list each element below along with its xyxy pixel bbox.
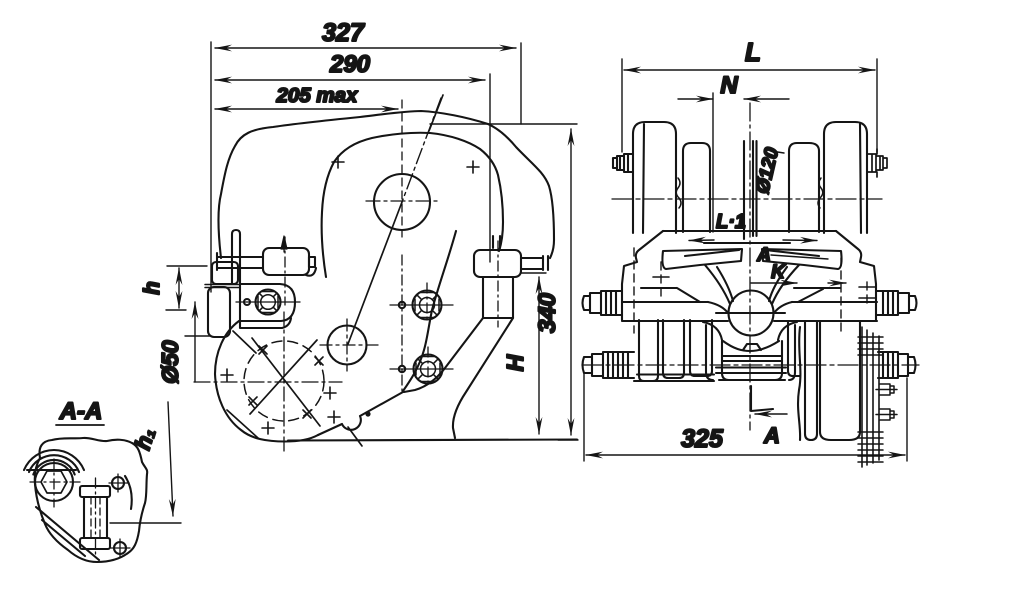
dim 325 line — [586, 454, 905, 456]
boss outer arc — [215, 321, 318, 442]
shelf-to-circle arc right — [774, 302, 792, 313]
325 ext left — [583, 374, 585, 461]
right jaw inner slant — [765, 250, 819, 256]
right post centerline — [497, 241, 499, 327]
left jaw inner slant — [685, 250, 739, 256]
base band line — [637, 373, 714, 375]
long tick lower-right — [348, 427, 362, 446]
long tick lower-left — [227, 410, 258, 438]
right bracket strip — [521, 256, 548, 270]
A bottom arrow — [755, 413, 787, 415]
left outer lobe — [633, 122, 676, 233]
small bolt lower — [876, 409, 897, 420]
big circle h-centerline — [366, 200, 438, 202]
center v-centerline x750 — [749, 103, 751, 430]
baseline — [288, 440, 577, 441]
gap squiggle left — [676, 178, 681, 208]
svg-text:h₁: h₁ — [130, 425, 160, 453]
small circle upper — [112, 477, 124, 489]
right column — [788, 321, 800, 376]
section bolt circle — [35, 463, 73, 501]
omega bump — [743, 344, 761, 350]
svg-text:L: L — [745, 37, 761, 67]
top bracket post — [232, 230, 240, 284]
slot top line — [704, 242, 790, 244]
bowl bottom line — [719, 379, 785, 381]
jaw-to-circle curve right — [772, 265, 799, 304]
left jaw — [662, 249, 742, 269]
svg-text:290: 290 — [329, 51, 371, 78]
long tick upper-left — [233, 331, 256, 353]
head right profile — [836, 231, 876, 320]
right shelf lines — [792, 288, 877, 302]
bowl stack lines — [716, 356, 786, 373]
extension line right x490 — [489, 74, 491, 262]
dashed hidden line right x841 — [840, 258, 842, 336]
inner wing curve right — [769, 267, 787, 301]
shoulder arc right — [778, 322, 797, 340]
dim 205max line — [215, 108, 398, 110]
svg-text:A-A: A-A — [59, 398, 103, 425]
dim h line — [178, 268, 180, 308]
extension line left x211 — [210, 42, 212, 292]
bolt v-centerlines — [427, 283, 428, 387]
left block B — [208, 287, 230, 337]
right bracket pad — [474, 250, 521, 277]
X cross line 2 — [250, 340, 317, 414]
boss flange bottom — [240, 318, 291, 328]
right bolt circle lower — [414, 355, 443, 384]
svg-text:N: N — [720, 72, 738, 99]
pin bottom cap — [80, 538, 110, 549]
dim h1 line — [168, 402, 173, 516]
flank wall left — [706, 325, 713, 380]
lower-right big bolt — [878, 352, 916, 378]
ribbed pack verticals — [862, 327, 879, 467]
central circle — [729, 291, 774, 336]
diagonal edge 2 — [404, 318, 483, 392]
dim L line — [624, 69, 875, 71]
dim N line — [678, 98, 713, 100]
right side bolt — [867, 149, 887, 177]
head left profile — [622, 231, 663, 320]
pin body — [84, 497, 107, 538]
svg-text:327: 327 — [322, 19, 365, 47]
svg-text:L·1: L·1 — [716, 211, 746, 233]
solid diagonal top segment — [429, 95, 443, 131]
small bolt upper — [876, 384, 897, 395]
dim 327 line — [215, 47, 516, 49]
middle circle — [328, 326, 367, 365]
dim 340 line — [570, 129, 572, 435]
jaw-to-circle curve left — [705, 265, 730, 304]
svg-text:Ø50: Ø50 — [157, 340, 183, 384]
concentric arcs — [24, 450, 84, 475]
inner pocket curve — [125, 476, 132, 509]
L extension lines — [621, 59, 623, 152]
small circle lower — [114, 542, 126, 554]
outer cover outline — [218, 111, 554, 258]
section blob outline — [35, 438, 147, 562]
hanging plate 1 — [805, 321, 817, 440]
upper-left big bolt — [583, 291, 623, 315]
pad v-centerline — [284, 237, 286, 305]
inner wing curve left — [717, 267, 733, 301]
right bolt circle upper — [413, 291, 442, 320]
lower h-centerline y365 — [582, 364, 919, 366]
vertical dashed line x402 — [401, 255, 403, 392]
dim L1 arrows — [689, 239, 714, 242]
pin top cap — [80, 486, 110, 497]
RIGHT VIEW — [584, 59, 907, 461]
right inner slab — [789, 143, 819, 232]
right jaw — [762, 249, 842, 269]
top bracket hook fillet — [306, 268, 316, 276]
left bolt inner pattern — [261, 295, 276, 310]
slant bottom line with bump — [318, 392, 403, 435]
head bottom edge — [622, 320, 877, 322]
bowl side walls — [722, 341, 782, 380]
325 ext right — [906, 378, 908, 461]
wavy edge line — [798, 327, 800, 440]
top bracket pad — [263, 248, 309, 275]
pin centerline — [95, 478, 97, 556]
wavy line under circle — [723, 341, 779, 351]
pipe lines — [744, 141, 757, 239]
svg-text:h: h — [139, 281, 164, 294]
boss flange — [240, 284, 295, 321]
inner cover outline — [322, 133, 503, 277]
bottom line — [634, 380, 714, 382]
A top leader — [771, 255, 828, 259]
lower-left big bolt — [583, 352, 635, 378]
right lobe inner line — [860, 124, 861, 233]
label A-A underline — [56, 424, 104, 426]
h1 reference line — [110, 522, 181, 524]
double lines under blocks — [205, 285, 240, 288]
shoulder arc left — [703, 322, 722, 340]
top bracket strap — [217, 253, 263, 270]
bolt h-centerlines — [390, 305, 453, 369]
gap squiggle right — [818, 178, 823, 208]
central circle h-line — [716, 312, 785, 314]
left bolt circle — [256, 290, 281, 315]
left side bolt — [613, 154, 633, 172]
section bolt hexagon — [41, 471, 67, 493]
DIMENSIONS-LEFT-VIEW — [166, 42, 578, 440]
head top edge — [663, 230, 836, 232]
dashed bolt circle — [244, 341, 324, 421]
small up arrow at pad centerline — [281, 236, 287, 252]
flank wall right — [789, 325, 795, 380]
svg-text:H: H — [502, 354, 528, 371]
dashed hidden line x661 with crosses — [660, 262, 662, 300]
K arrows — [751, 282, 797, 284]
svg-text:325: 325 — [681, 425, 724, 453]
boss v-centerline — [283, 312, 285, 452]
bottom-left diagonal — [36, 507, 99, 560]
x marks on dashed circle — [249, 346, 323, 418]
left block A — [212, 262, 238, 284]
boss h-centerline — [194, 381, 342, 383]
S-curve right of bolts — [403, 231, 456, 391]
axis diagonal dash-dot — [402, 98, 441, 202]
plus marks around boss — [221, 369, 340, 434]
right bracket post — [483, 277, 513, 318]
right bracket upper lines — [493, 236, 500, 248]
dim 290 line — [215, 79, 485, 81]
pin hidden lines — [91, 497, 100, 538]
shelf-to-circle arc left — [708, 302, 728, 313]
dashed hidden line left x631 — [633, 248, 635, 333]
right outer lobe — [824, 122, 867, 233]
left inner slab — [683, 143, 710, 232]
small circles left of bolts — [399, 302, 405, 308]
ribbed pack ticks — [858, 337, 883, 462]
svg-text:205 max: 205 max — [276, 84, 360, 107]
big circle — [374, 174, 430, 230]
left shelf lines — [622, 288, 708, 302]
chord line — [27, 469, 76, 471]
middle circle centerlines — [320, 319, 378, 371]
phi120 tick — [771, 151, 784, 153]
solid diagonal segment — [348, 202, 402, 344]
section line jog — [751, 386, 773, 411]
plus mark left — [332, 156, 344, 168]
N tick left — [712, 93, 714, 232]
plus mark right — [467, 161, 479, 173]
top bracket tab — [309, 257, 315, 267]
upper-right big bolt — [877, 291, 917, 315]
hanging plate 2 — [820, 321, 860, 440]
svg-text:A: A — [763, 423, 780, 448]
X cross line 1 — [252, 338, 320, 426]
left bolt h-centerline — [236, 301, 300, 303]
dim H line — [538, 277, 540, 434]
big circle v-dashed-line — [401, 100, 403, 237]
section bolt centerlines — [30, 459, 80, 507]
diagonal edge 3 — [453, 318, 513, 438]
main h-centerline y199 — [612, 198, 882, 200]
junction dot — [365, 411, 370, 416]
dashed hidden line x867 with crosses — [866, 282, 868, 306]
dim phi50 line — [194, 302, 196, 382]
extension line right x521 — [520, 43, 522, 124]
left small circle — [244, 299, 250, 305]
left lobe inner line — [643, 124, 644, 233]
svg-text:340: 340 — [534, 292, 561, 333]
left columns — [639, 320, 658, 381]
